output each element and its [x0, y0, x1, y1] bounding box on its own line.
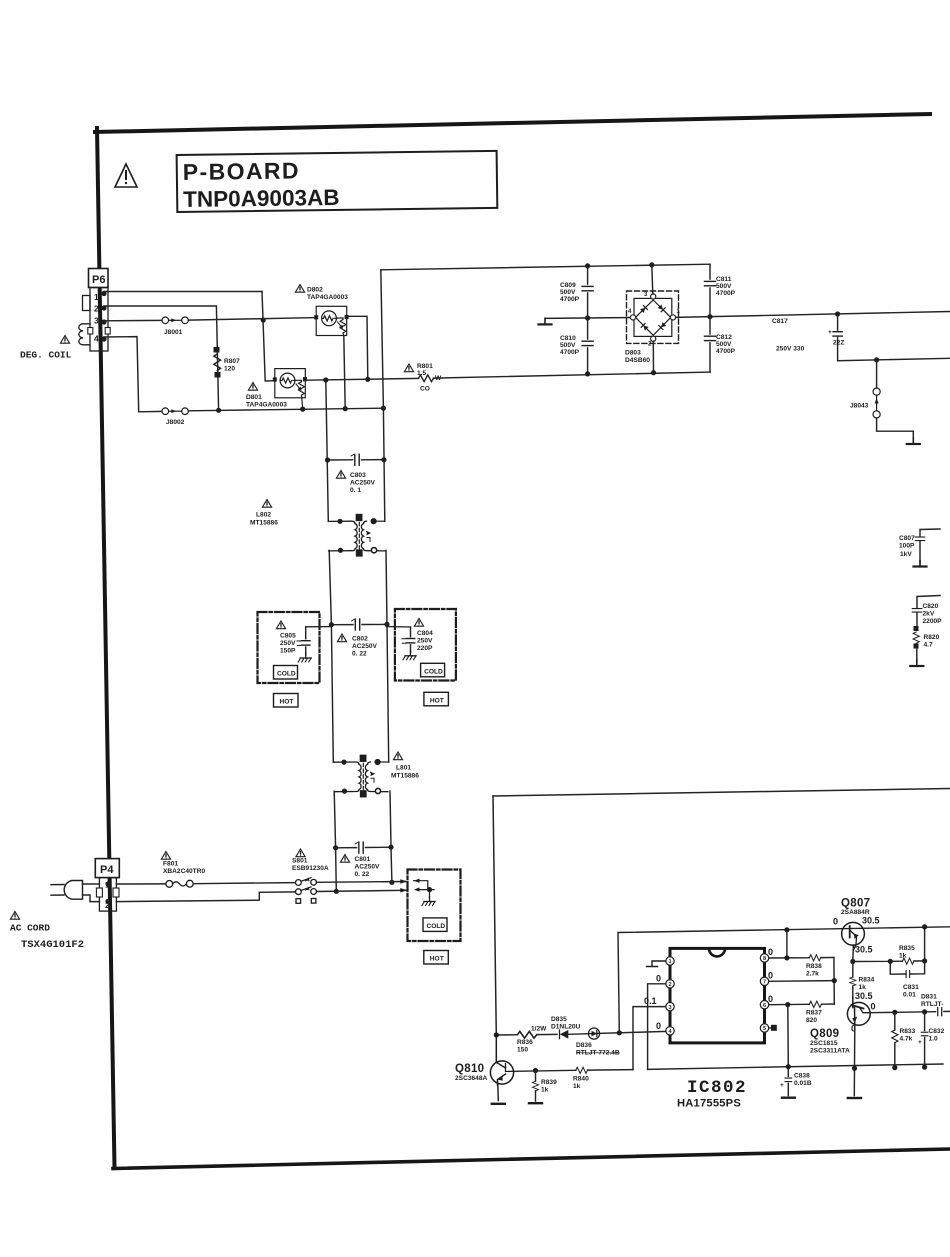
wire big box top edge: [493, 789, 950, 797]
frame left border: [97, 128, 115, 1168]
transformer L802: [328, 515, 385, 557]
wire switch to dashed box (upper): [317, 881, 407, 884]
svg-text:1: 1: [94, 292, 99, 302]
connector P6 notches: [88, 328, 93, 335]
svg-text:R820: R820: [924, 634, 940, 641]
svg-text:2SC3648A: 2SC3648A: [455, 1075, 487, 1082]
wire pin6 junction down to bottom row: [787, 1005, 790, 1067]
svg-text:150: 150: [517, 1047, 528, 1054]
svg-text:1: 1: [677, 309, 681, 315]
svg-text:RTLJT-: RTLJT-: [921, 1001, 943, 1008]
svg-text:500V: 500V: [560, 289, 576, 296]
svg-text:4: 4: [94, 334, 99, 344]
wire bottom row right part: [788, 1064, 943, 1067]
wire P6 pin1 row: [104, 291, 262, 293]
svg-text:C838: C838: [794, 1073, 810, 1080]
svg-text:MT15886: MT15886: [250, 520, 278, 527]
COLD box left: [274, 666, 298, 680]
wire P6 pin4 row: [104, 337, 139, 412]
pin8 stub: [769, 957, 787, 959]
capacitor C809: [587, 266, 589, 318]
svg-text:D836: D836: [576, 1042, 592, 1049]
arrows into dashed box: [414, 879, 435, 898]
wire big box left edge down to Q810: [493, 796, 496, 1035]
svg-text:C831: C831: [903, 984, 919, 991]
wire ground-to-bridge mid line: [545, 317, 633, 320]
svg-text:0. 1: 0. 1: [350, 487, 361, 494]
svg-text:2: 2: [648, 342, 652, 348]
svg-text:R834: R834: [859, 977, 875, 984]
jumper J8002: [162, 408, 188, 415]
svg-text:C832: C832: [929, 1028, 945, 1035]
deg coil loops on connector: [79, 324, 90, 345]
svg-text:2SC3311ATA: 2SC3311ATA: [810, 1048, 850, 1055]
chassis ground C805: [298, 653, 311, 662]
svg-text:XBA2C40TR0: XBA2C40TR0: [163, 868, 205, 875]
fuse F801: [161, 852, 170, 860]
svg-text:C805: C805: [280, 633, 296, 640]
wire main row: [305, 378, 418, 380]
svg-text:R838: R838: [806, 963, 822, 970]
svg-text:1k: 1k: [573, 1083, 581, 1090]
node dots on lower row: [216, 408, 221, 413]
wire bridge pin3 up: [652, 265, 653, 294]
svg-text:ESB91230A: ESB91230A: [292, 865, 329, 872]
capacitor C810: [587, 318, 589, 374]
svg-text:C812: C812: [716, 334, 732, 341]
svg-text:IC802: IC802: [687, 1078, 747, 1098]
svg-text:RTLJT-772.4B: RTLJT-772.4B: [576, 1050, 620, 1057]
capacitor C831 loop: [890, 961, 924, 974]
transistor Q810: [490, 1035, 513, 1085]
svg-text:0.01: 0.01: [903, 992, 916, 999]
wire top-left corner vertical: [381, 270, 385, 522]
wire J8043 to ground: [877, 418, 914, 441]
COLD box right: [421, 663, 445, 677]
svg-text:J8002: J8002: [166, 419, 185, 426]
HOT box left: [274, 694, 299, 708]
svg-text:1k: 1k: [899, 953, 907, 960]
svg-text:7: 7: [763, 980, 766, 986]
capacitor at right edge: [938, 1007, 942, 1015]
resistor R820: [914, 626, 919, 631]
pin1 ground flag: [647, 961, 666, 967]
connector P6 label box: [89, 269, 109, 288]
svg-text:J8043: J8043: [850, 403, 869, 410]
svg-text:AC250V: AC250V: [352, 643, 378, 650]
pin6 row with R837: [769, 1003, 835, 1006]
dashed box COLD left (C805): [258, 612, 320, 683]
HOT box bottom: [424, 951, 449, 965]
svg-text:HOT: HOT: [430, 697, 444, 704]
P4 pin numbers: [105, 880, 110, 911]
pin2 wire down: [648, 984, 666, 1070]
svg-text:1k: 1k: [859, 984, 867, 991]
svg-text:AC250V: AC250V: [355, 864, 381, 871]
relay D802 body: [316, 306, 347, 335]
connector P4 body: [99, 878, 116, 912]
wire P6 pin2 row: [104, 306, 219, 410]
svg-text:3: 3: [94, 316, 99, 326]
wire plug to P4: [83, 883, 100, 885]
svg-text:L802: L802: [256, 512, 271, 519]
svg-text:TNP0A9003AB: TNP0A9003AB: [183, 185, 340, 212]
svg-text:C803: C803: [350, 472, 366, 479]
jumper J8043: [876, 360, 878, 388]
svg-text:6: 6: [763, 1003, 766, 1009]
svg-text:D801: D801: [246, 394, 262, 401]
resistor R838 on pin8 row: [787, 957, 834, 959]
capacitor C804: [387, 626, 411, 628]
svg-text:HA17555PS: HA17555PS: [677, 1098, 741, 1110]
svg-text:TAP4GA0003: TAP4GA0003: [246, 402, 287, 409]
wire Q807 collector down: [852, 945, 855, 962]
diode top-left: [640, 306, 647, 313]
wire pin1 vertical down to D801: [262, 292, 276, 382]
wire D802 resistor bottom lead: [344, 336, 345, 409]
svg-text:COLD: COLD: [277, 671, 296, 678]
resistor R840: [576, 1067, 588, 1073]
wire switch to dashed box (lower): [317, 890, 407, 891]
transformer L801: [333, 755, 388, 797]
transistor Q807: [842, 922, 865, 950]
svg-text:R840: R840: [573, 1076, 589, 1083]
resistor R807 on pin2 vertical: [214, 348, 221, 378]
svg-text:120: 120: [224, 366, 235, 373]
resistor R834: [852, 962, 854, 998]
wire Q809 collector row right: [870, 1012, 935, 1013]
wire L801 bottom verticals down to C801: [334, 791, 335, 848]
svg-text:R837: R837: [806, 1010, 822, 1017]
svg-text:C809: C809: [560, 282, 576, 289]
svg-text:1.0: 1.0: [929, 1036, 938, 1043]
svg-text:C802: C802: [352, 636, 368, 643]
svg-text:0: 0: [656, 1021, 661, 1031]
switch S801: [296, 849, 305, 857]
wire C831 node up to rail: [924, 927, 926, 961]
svg-text:0: 0: [768, 947, 773, 957]
svg-text:4700P: 4700P: [560, 296, 580, 303]
diode bridge D803: [627, 291, 679, 343]
svg-text:R839: R839: [541, 1079, 557, 1086]
svg-text:COLD: COLD: [424, 668, 443, 675]
svg-text:2: 2: [94, 304, 99, 314]
wire bridge pin2 down: [652, 341, 654, 372]
svg-text:250V: 250V: [417, 638, 433, 645]
svg-text:2: 2: [668, 982, 671, 988]
svg-text:TAP4GA0003: TAP4GA0003: [307, 294, 348, 301]
svg-text:4700P: 4700P: [560, 349, 580, 356]
resistor R837: [809, 1001, 821, 1007]
HOT box right: [424, 692, 449, 706]
wire C802 row verticals down to L801: [331, 625, 333, 763]
diode D836 (in circle): [588, 1028, 599, 1039]
svg-text:J8001: J8001: [164, 329, 183, 336]
COLD box bottom: [423, 918, 447, 932]
svg-text:250V: 250V: [280, 640, 296, 647]
svg-text:P-BOARD: P-BOARD: [183, 157, 300, 185]
svg-text:30.5: 30.5: [862, 916, 880, 926]
dashed box COLD right (C804): [395, 609, 456, 681]
svg-text:C817: C817: [772, 318, 788, 325]
svg-text:CO: CO: [420, 386, 430, 393]
svg-text:0: 0: [656, 974, 661, 984]
label L801: [393, 752, 402, 760]
svg-text:HOT: HOT: [280, 699, 294, 706]
svg-text:P4: P4: [100, 864, 114, 876]
svg-text:C804: C804: [417, 630, 433, 637]
svg-text:R835: R835: [899, 945, 915, 952]
svg-text:0. 22: 0. 22: [355, 871, 370, 878]
svg-text:500V: 500V: [716, 341, 732, 348]
connector P6 left tab: [83, 296, 91, 311]
svg-text:500V: 500V: [560, 342, 576, 349]
svg-text:DEG. COIL: DEG. COIL: [20, 350, 72, 361]
ground right of J8043: [907, 438, 920, 444]
IC pins right: [760, 954, 768, 1032]
svg-text:C810: C810: [560, 335, 576, 342]
svg-text:+: +: [780, 1082, 784, 1089]
svg-text:0: 0: [833, 917, 838, 927]
wire R836 row (to IC pin4): [496, 1031, 666, 1035]
pin5 stub square: [769, 1027, 771, 1029]
wire D802 right to main row: [347, 316, 368, 379]
AC plug symbol: [51, 881, 83, 900]
svg-text:0. 22: 0. 22: [352, 651, 367, 658]
warning AC cord: [10, 912, 19, 920]
diamond: [636, 300, 671, 335]
svg-text:+: +: [828, 329, 832, 336]
svg-text:100P: 100P: [899, 543, 915, 550]
wire R838/R837 right vertical: [833, 958, 835, 1005]
wire P4 pin2 row: [116, 892, 295, 902]
svg-text:3: 3: [668, 1005, 671, 1011]
capacitor C805: [306, 626, 332, 628]
capacitor C832: [924, 1012, 926, 1067]
P-BOARD title box: [177, 151, 498, 212]
wire bridge output (mid wire right): [676, 312, 950, 318]
connector P4 notches: [96, 888, 102, 897]
svg-text:COLD: COLD: [427, 923, 446, 930]
svg-text:5: 5: [763, 1026, 766, 1032]
svg-text:150P: 150P: [280, 648, 296, 655]
phase mark arrow: [367, 532, 371, 535]
left winding: [329, 524, 358, 551]
svg-text:8: 8: [763, 956, 766, 962]
core dashes: [358, 523, 360, 550]
capacitor C838: [787, 1067, 789, 1096]
svg-text:TSX4G101F2: TSX4G101F2: [21, 939, 84, 951]
capacitor C817 (electrolytic): [838, 314, 950, 361]
svg-text:4: 4: [628, 309, 632, 315]
diode top-right: [658, 304, 665, 311]
frame top border: [95, 114, 930, 132]
svg-text:MT15886: MT15886: [391, 773, 419, 780]
diode D835: [560, 1030, 569, 1039]
svg-text:4.7: 4.7: [924, 642, 933, 649]
svg-text:C801: C801: [355, 856, 371, 863]
svg-text:P6: P6: [92, 274, 105, 286]
resistor R833: [894, 1012, 896, 1067]
ground at bridge left: [539, 318, 552, 324]
svg-text:HOT: HOT: [430, 956, 444, 963]
P6 pin dots: [101, 291, 106, 296]
diode bottom-left: [641, 323, 648, 330]
svg-text:C820: C820: [923, 603, 939, 610]
svg-text:D802: D802: [307, 287, 323, 294]
svg-text:0.01B: 0.01B: [794, 1080, 812, 1087]
svg-text:500V: 500V: [716, 283, 732, 290]
svg-text:F801: F801: [163, 861, 178, 868]
pin3 wire down: [633, 1007, 666, 1070]
svg-text:0: 0: [768, 970, 773, 980]
resistor R801: [404, 364, 413, 372]
svg-text:R807: R807: [224, 358, 240, 365]
pin circles: [651, 294, 656, 299]
wire P6 pin3 row (to D802): [104, 319, 162, 321]
svg-text:D835: D835: [551, 1016, 567, 1023]
svg-text:AC CORD: AC CORD: [10, 923, 50, 934]
warning triangle top-left: [115, 164, 137, 187]
svg-text:R801: R801: [417, 363, 433, 370]
pin squares: [356, 515, 362, 521]
capacitor C802: [331, 623, 387, 625]
svg-text:C811: C811: [716, 276, 732, 283]
svg-text:4.7k: 4.7k: [900, 1036, 913, 1043]
right winding: [361, 524, 385, 551]
svg-text:2kV: 2kV: [923, 611, 935, 618]
wire Q809 emitter down: [853, 1025, 856, 1096]
svg-text:220P: 220P: [417, 645, 433, 652]
capacitor C801: [336, 846, 391, 849]
svg-text:D1NL20U: D1NL20U: [551, 1023, 581, 1030]
svg-text:AC250V: AC250V: [350, 480, 376, 487]
svg-text:3: 3: [644, 292, 648, 298]
wire left main vertical (from main row down): [326, 380, 329, 521]
wire P4 pin1 row: [116, 883, 166, 885]
svg-text:Q809: Q809: [810, 1028, 839, 1040]
wire top bus: [381, 264, 710, 270]
wire lower row: [139, 410, 162, 412]
svg-text:2.7k: 2.7k: [806, 971, 819, 978]
svg-text:D831: D831: [921, 994, 937, 1001]
node junction J8001 row: [261, 317, 266, 322]
switch pin squares: [296, 899, 301, 904]
pin7 row: [769, 980, 835, 983]
wire C801 left vertical down to S801 lower row: [335, 848, 338, 892]
IC pins left: [666, 957, 674, 1035]
wire C801 right vertical down to upper switch row: [390, 847, 393, 882]
svg-text:0: 0: [871, 1002, 876, 1012]
wire long row pin2-vertical to C838: [648, 1067, 789, 1070]
dashed box COLD bottom: [408, 870, 461, 942]
warning triangle deg coil: [60, 336, 69, 344]
switch pole 2: [296, 889, 302, 895]
svg-text:4700P: 4700P: [716, 290, 736, 297]
svg-text:R836: R836: [517, 1039, 533, 1046]
svg-text:Q810: Q810: [455, 1063, 484, 1075]
IC802 body: [670, 948, 765, 1043]
svg-text:C807: C807: [899, 535, 915, 542]
connector P6 body: [90, 288, 108, 352]
svg-text:2200P: 2200P: [923, 618, 943, 625]
svg-text:S801: S801: [292, 858, 308, 865]
svg-text:0: 0: [768, 994, 773, 1004]
svg-text:1k: 1k: [541, 1087, 549, 1094]
capacitor C820: [917, 596, 940, 627]
capacitor C812: [709, 317, 711, 372]
svg-text:Q807: Q807: [841, 898, 870, 910]
svg-text:30.5: 30.5: [855, 945, 873, 955]
P6 pin numbers: [94, 292, 99, 344]
resistor R836: [517, 1031, 536, 1038]
transistor Q809: [847, 997, 870, 1025]
wire L802 bottom verticals: [329, 550, 331, 624]
wire Q810 emitter to ground: [497, 1084, 500, 1101]
svg-text:D4SB60: D4SB60: [625, 357, 650, 364]
diode bottom-right: [659, 322, 666, 329]
svg-text:0.1: 0.1: [644, 996, 657, 1006]
svg-text:22Z: 22Z: [833, 340, 844, 347]
svg-text:250V 330: 250V 330: [776, 346, 805, 353]
svg-text:30.5: 30.5: [855, 991, 873, 1001]
jumper J8001: [162, 317, 188, 324]
svg-text:1/2W: 1/2W: [531, 1026, 547, 1033]
svg-text:1kV: 1kV: [900, 551, 912, 558]
svg-text:L801: L801: [396, 765, 411, 772]
wire Q810 base row: [514, 1070, 634, 1072]
svg-text:1: 1: [668, 959, 671, 965]
capacitor C811: [709, 264, 711, 317]
wire rail from R836 row up and right: [618, 927, 950, 1033]
svg-text:820: 820: [806, 1017, 817, 1024]
capacitor C803: [328, 459, 384, 461]
switch pole 1: [296, 880, 302, 886]
svg-text:W: W: [435, 375, 442, 382]
relay D801 body: [275, 369, 306, 398]
label L802: [262, 500, 271, 508]
svg-text:4700P: 4700P: [716, 348, 736, 355]
svg-text:2SC1815: 2SC1815: [810, 1040, 838, 1047]
frame bottom border: [113, 1149, 950, 1169]
svg-text:1.5: 1.5: [417, 370, 426, 377]
chassis ground C804: [403, 651, 416, 660]
svg-text:R833: R833: [900, 1028, 916, 1035]
svg-text:D803: D803: [625, 350, 641, 357]
connector P4 label box: [95, 859, 119, 878]
svg-text:+: +: [918, 1039, 922, 1046]
resistor R839: [535, 1071, 537, 1102]
wire rail drop to pin8 row: [786, 930, 788, 958]
